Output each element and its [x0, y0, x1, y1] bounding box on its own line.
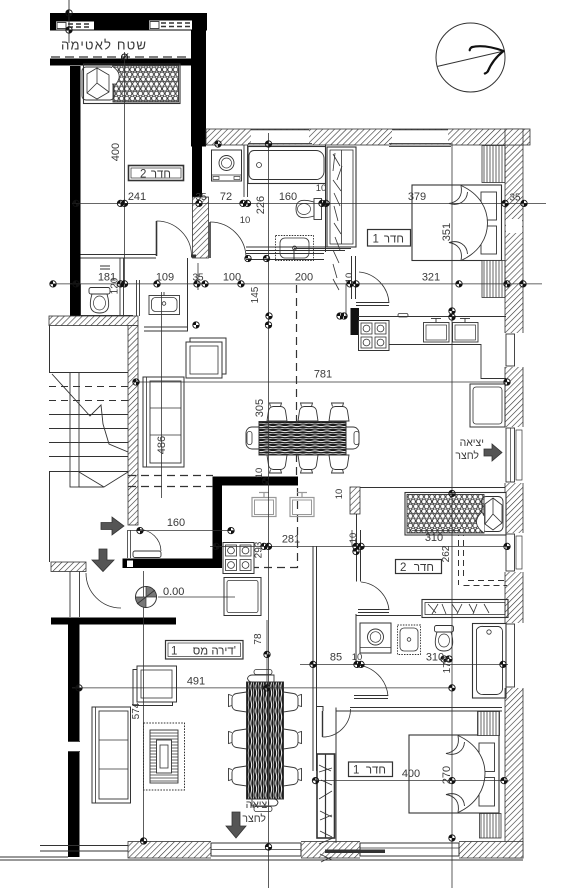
- wall south of room 2 upper with door opening: [81, 255, 157, 259]
- door living-to-hall lower: [316, 707, 351, 738]
- hatched entry wall piece: [51, 562, 86, 572]
- svg-text:178: 178: [442, 656, 453, 673]
- sofa lower living: [92, 707, 131, 803]
- svg-text:חדר: חדר: [366, 765, 386, 777]
- svg-text:400: 400: [402, 768, 420, 780]
- WC / shower walls upper hall: [80, 284, 82, 316]
- dining table lower: [229, 670, 302, 812]
- room label boxes: [129, 166, 442, 777]
- wardrobe room1 upper: [327, 147, 356, 290]
- dimension row y664 (85/310): [300, 663, 508, 665]
- curtain track room1 upper (south): [482, 261, 505, 298]
- dimension row y688 (491): [72, 687, 450, 689]
- door room 2 upper: [157, 221, 192, 256]
- svg-text:יציאה: יציאה: [460, 437, 484, 449]
- svg-text:2: 2: [400, 562, 406, 574]
- black wall Z middle: vertical: [213, 477, 223, 568]
- svg-text:2: 2: [140, 169, 146, 181]
- court exit arrow down (bottom): [226, 799, 270, 838]
- north compass: [436, 23, 505, 92]
- svg-text:10: 10: [344, 273, 355, 284]
- svg-text:78: 78: [253, 633, 264, 645]
- washing machine upper: [212, 150, 242, 181]
- dining table upper: [246, 403, 359, 473]
- sealing strip dashed line: [51, 56, 191, 58]
- construction line vertical x69 top: [68, 0, 70, 43]
- wall top black band: [50, 13, 207, 31]
- svg-text:574: 574: [131, 702, 142, 719]
- dimension row y203: [72, 202, 546, 204]
- bath upper: south wall: [246, 247, 345, 251]
- opening in west wall: [67, 741, 81, 752]
- kitchen upper counter edge: [389, 345, 506, 379]
- bottom outer line: [0, 859, 523, 861]
- living east boundary dashed: [296, 285, 298, 478]
- small wall tick above toilet: [100, 266, 110, 269]
- hatched corner top-right: [505, 129, 523, 145]
- construction line vertical x161.5 shower: [161, 292, 163, 498]
- svg-text:486: 486: [156, 436, 168, 454]
- stairs: [49, 373, 128, 488]
- dimension row y530 (160): [128, 530, 234, 532]
- kitchen lower cabinet: [224, 578, 261, 616]
- svg-text:351: 351: [441, 223, 453, 241]
- toilet WC hall upper: [89, 288, 110, 314]
- svg-text:חדר: חדר: [384, 234, 404, 246]
- svg-text:1: 1: [171, 646, 177, 658]
- curtain track room1 lower north: [478, 712, 500, 736]
- svg-text:שטח לאטימה: שטח לאטימה: [61, 38, 146, 53]
- toilet lower bath: [435, 626, 454, 652]
- bottom hatched wall band: [128, 842, 523, 859]
- svg-text:יציאה: יציאה: [246, 799, 270, 811]
- gap in east wall hatch: [506, 219, 522, 233]
- hatched wall below bath left: [193, 197, 209, 258]
- kitchen upper sinks: [398, 314, 478, 343]
- dimension nodes: [66, 10, 72, 16]
- svg-text:לחצר: לחצר: [242, 813, 266, 825]
- svg-text:לחצר: לחצר: [455, 450, 479, 462]
- svg-text:85: 85: [330, 652, 342, 664]
- window east court exit: [504, 427, 524, 483]
- rug + coffee table lower: [144, 723, 185, 790]
- svg-text:781: 781: [314, 369, 332, 381]
- kitchen lower sinks: [252, 492, 314, 517]
- svg-text:35: 35: [509, 193, 521, 204]
- wardrobe hall lower: [422, 600, 508, 618]
- black west wall of apartment 1: [68, 619, 80, 857]
- label room2 lower: [396, 560, 442, 574]
- svg-text:160: 160: [279, 191, 297, 203]
- sideboard/armchair top of living lower: [133, 666, 177, 706]
- label room2 upper: [129, 166, 184, 181]
- dimension row y382 (781): [133, 381, 508, 383]
- label apartment 1: [166, 641, 244, 660]
- svg-text:200: 200: [295, 272, 313, 284]
- bed room 2 upper: [82, 64, 180, 104]
- hatched stub at kitchen lower: [350, 487, 360, 514]
- svg-text:145: 145: [250, 286, 261, 303]
- window bottom 1: [211, 840, 301, 859]
- svg-text:10: 10: [316, 183, 327, 194]
- wall stub west of room1 door: [352, 256, 356, 299]
- door bath apt1: [358, 582, 389, 613]
- dining boundary dashed lines: [128, 475, 213, 477]
- armchair upper living: [186, 338, 226, 378]
- bath upper: west wall of tub room: [244, 145, 248, 197]
- svg-text:262: 262: [441, 545, 452, 562]
- black wall Z middle: bottom bar: [123, 559, 222, 569]
- svg-text:10: 10: [254, 468, 265, 479]
- svg-text:293: 293: [254, 541, 265, 558]
- hall apt1 west wall: [313, 546, 317, 771]
- svg-text:305: 305: [254, 399, 266, 417]
- svg-text:310: 310: [425, 532, 443, 544]
- hatched band top of apartment: [206, 129, 530, 145]
- svg-text:דירה מס': דירה מס': [193, 646, 236, 658]
- window east bath lower: [504, 623, 524, 688]
- svg-text:400: 400: [110, 143, 122, 161]
- construction line vertical x268.5: [268, 133, 270, 888]
- construction line vertical x446.5: [451, 143, 453, 888]
- svg-text:491: 491: [187, 676, 205, 688]
- label room1 upper: [368, 230, 411, 247]
- room1 lower west wardrobe wall: [335, 711, 337, 843]
- window top 1: [248, 130, 312, 147]
- kitchen top line: [358, 316, 506, 318]
- door bath upper: [210, 222, 246, 258]
- svg-text:10: 10: [348, 533, 359, 544]
- svg-text:109: 109: [156, 272, 174, 284]
- wall right of room 2 upper: [191, 31, 206, 147]
- svg-text:1: 1: [373, 234, 379, 246]
- duct dashed lines room2 lower: [459, 530, 508, 586]
- level mark 0.00 apt1: [136, 586, 236, 608]
- dimension row y546 (281/310): [210, 545, 510, 547]
- svg-text:0.00: 0.00: [163, 586, 184, 598]
- sofa upper living: [143, 377, 184, 467]
- wall second black band: [50, 59, 191, 66]
- dimension row y284: [50, 283, 542, 285]
- outer stair door arc: [86, 573, 121, 608]
- window top 2: [389, 130, 451, 147]
- curtain track room1 lower south: [480, 814, 502, 839]
- construction line vertical x124.5: [124, 52, 126, 284]
- terrace edge lines bottom-left: [40, 845, 128, 847]
- entry arrow right: [101, 517, 124, 535]
- sink shower room upper: [149, 292, 180, 315]
- west boundary line mid: [70, 572, 80, 618]
- hatched band south of upper WC: [49, 316, 138, 326]
- hatched east wall (slanted): [505, 145, 523, 858]
- construction line vertical x346: [345, 284, 347, 316]
- svg-text:חדר: חדר: [151, 169, 171, 181]
- svg-text:חדר: חדר: [414, 562, 434, 574]
- bed room 1 lower: [409, 735, 499, 813]
- window east hall: [504, 533, 524, 572]
- svg-text:379: 379: [408, 191, 426, 203]
- svg-text:72: 72: [220, 191, 232, 203]
- kitchen lower stove: [223, 543, 254, 574]
- room1 lower north wall: [350, 708, 502, 712]
- bathtub lower: [473, 624, 507, 699]
- vent opening right in top band: [149, 21, 192, 30]
- washing machine lower: [360, 623, 391, 653]
- wardrobe room1 lower: [317, 754, 335, 862]
- label room1 lower: [349, 762, 393, 777]
- svg-text:160: 160: [167, 517, 185, 529]
- entry door apt1: [128, 530, 162, 559]
- hatched stub kitchen upper west: [351, 308, 360, 335]
- svg-text:270: 270: [441, 766, 453, 784]
- black bar west of level mark: [51, 618, 176, 625]
- entry arrow down: [92, 549, 114, 572]
- svg-text:1: 1: [353, 765, 359, 777]
- svg-text:35: 35: [192, 273, 204, 284]
- svg-text:10: 10: [334, 489, 345, 500]
- refrigerator upper: [470, 384, 505, 427]
- bathtub upper: [248, 147, 326, 184]
- hatched west wall of living room upper: [128, 326, 138, 526]
- curtain track room1 upper (north): [482, 146, 505, 183]
- svg-text:321: 321: [422, 272, 440, 284]
- construction line vertical x143.6 living: [143, 571, 145, 843]
- svg-text:10: 10: [352, 652, 363, 663]
- svg-text:10: 10: [240, 215, 251, 226]
- svg-text:120: 120: [110, 277, 121, 294]
- toilet upper bath: [296, 199, 322, 220]
- kitchen upper: stove: [359, 321, 390, 351]
- window east kitchen: [504, 333, 524, 367]
- court exit arrow right (mid): [455, 437, 502, 462]
- notch in wall: [127, 561, 133, 568]
- dimension row y780 (400): [315, 780, 508, 782]
- svg-text:100: 100: [223, 272, 241, 284]
- hall apt1 east wall (room2 lower west): [357, 530, 361, 582]
- sink upper bath: [276, 236, 314, 261]
- wardrobe wall room1-upper west: [325, 145, 327, 252]
- door room1 lower north: [354, 665, 388, 699]
- black wall Z middle: top bar: [213, 477, 299, 486]
- svg-text:226: 226: [255, 196, 267, 214]
- door to dining (from hall): [356, 272, 389, 306]
- vent opening left in top band: [56, 22, 94, 30]
- window bottom 2: [325, 840, 459, 859]
- bath lower north wall: [356, 615, 421, 617]
- room2 lower north boundary: [360, 487, 505, 489]
- sink lower bath: [398, 625, 421, 655]
- bed room 2 lower: [405, 493, 506, 536]
- bed room 1 upper: [412, 185, 502, 261]
- hall south walls (room1 upper side): [246, 254, 324, 260]
- svg-text:241: 241: [128, 191, 146, 203]
- svg-text:35: 35: [195, 192, 207, 203]
- wall left of room 2 upper: [70, 66, 81, 316]
- extension ticks room1 door: [351, 530, 353, 546]
- svg-text:281: 281: [282, 534, 300, 546]
